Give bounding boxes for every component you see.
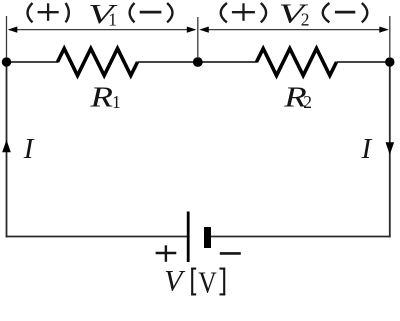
resistor R1 <box>58 49 138 76</box>
svg-text:I: I <box>361 133 373 165</box>
current arrow left (upward) <box>2 140 11 152</box>
current arrow right (downward) <box>386 142 395 155</box>
svg-text:V: V <box>198 265 217 300</box>
label : (+) before V1 <box>28 3 69 22</box>
dimension line V1 with arrows <box>8 27 197 33</box>
svg-text:1: 1 <box>108 10 117 30</box>
battery V : short negative plate <box>204 227 211 248</box>
dimension tick left <box>6 16 8 58</box>
node : right junction <box>385 57 394 66</box>
wire : bottom left segment to battery <box>6 236 188 238</box>
svg-text:2: 2 <box>301 10 310 30</box>
node : left junction <box>2 57 11 66</box>
wire : bottom right segment from battery <box>207 236 391 238</box>
label : battery minus sign <box>220 252 241 255</box>
wire : right vertical <box>389 62 391 237</box>
svg-text:1: 1 <box>112 92 121 112</box>
svg-text:I: I <box>23 133 35 165</box>
label : V[V] battery value <box>164 265 225 300</box>
wire : top wire middle segment <box>138 61 258 63</box>
wire : left vertical <box>6 62 8 237</box>
wire : top wire right segment <box>337 61 391 63</box>
svg-text:2: 2 <box>303 92 312 112</box>
dimension line V2 with arrows <box>199 27 388 33</box>
label : (-) after V2 <box>323 3 368 22</box>
label : (-) after V1 <box>130 3 173 22</box>
svg-text:V: V <box>164 265 186 298</box>
label : battery plus sign <box>156 245 177 261</box>
label : (+) before V2 <box>221 3 266 22</box>
dimension tick middle <box>197 17 199 58</box>
resistor R2 <box>257 49 337 76</box>
wire : top wire left segment <box>7 61 59 63</box>
node : middle junction <box>193 57 203 67</box>
svg-text:R: R <box>89 83 113 114</box>
dimension tick right <box>389 16 391 58</box>
battery V : long positive plate <box>187 212 190 263</box>
